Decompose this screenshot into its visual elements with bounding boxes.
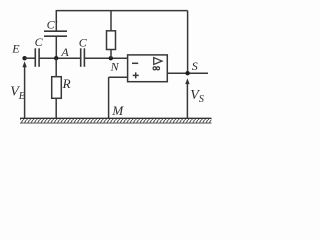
node S [185, 71, 189, 75]
svg-text:R: R [62, 76, 71, 91]
node E [22, 56, 26, 60]
wire R to ground [55, 98, 57, 118]
capacitor C2 [81, 48, 85, 67]
wire top feedback rail [56, 10, 187, 12]
node A [54, 56, 58, 60]
svg-text:S: S [192, 59, 198, 73]
capacitor C1 [35, 48, 39, 67]
wire C2 to op-amp inverting input through node N [84, 57, 127, 59]
wire op-amp non-inverting input stub [109, 76, 128, 78]
wire A down to resistor R [55, 58, 57, 76]
svg-text:VS: VS [190, 88, 204, 105]
source arrow V_E [22, 61, 26, 118]
svg-text:M: M [111, 103, 124, 118]
svg-text:C: C [79, 35, 88, 49]
node N [109, 56, 113, 60]
wire top-left vertical to C' top plate [55, 10, 57, 31]
svg-text:VE: VE [10, 85, 26, 102]
resistor R' [107, 31, 116, 50]
wire op-amp output [167, 72, 208, 74]
op-amp U1 [128, 55, 168, 82]
wire C1 to C2 through node A [39, 57, 81, 59]
wire E to C1 [25, 57, 36, 59]
svg-text:E: E [11, 42, 20, 56]
svg-text:N: N [110, 60, 120, 74]
wire feedback vertical from top rail to node S [187, 11, 189, 74]
wire top rail down to resistor R' [110, 11, 112, 31]
capacitor C' [44, 31, 67, 36]
wire node M vertical to ground [108, 77, 110, 118]
svg-text:C: C [35, 35, 44, 49]
ground rail [20, 118, 212, 123]
resistor R [52, 77, 62, 99]
wire C' bottom plate down to node A [55, 36, 57, 58]
wire R' bottom to node N [110, 50, 112, 59]
svg-text:C′: C′ [47, 17, 58, 31]
source arrow V_S [185, 78, 189, 118]
svg-text:A: A [60, 45, 69, 59]
